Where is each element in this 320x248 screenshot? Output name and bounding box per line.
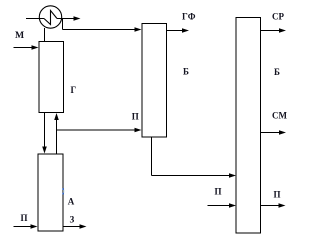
svg-text:М: М [15, 30, 24, 41]
svg-text:Б: Б [183, 67, 189, 77]
svg-text:П: П [21, 213, 28, 223]
svg-text:СМ: СМ [272, 111, 287, 121]
svg-text:Б: Б [274, 67, 280, 77]
svg-text:П: П [274, 190, 281, 200]
svg-text:СР: СР [272, 12, 284, 22]
svg-text:П: П [132, 112, 139, 122]
svg-text:ГФ: ГФ [182, 12, 196, 22]
svg-text:Г: Г [71, 85, 77, 95]
svg-text:П: П [215, 187, 222, 197]
svg-text:А: А [68, 197, 75, 207]
svg-text:З: З [70, 215, 75, 225]
